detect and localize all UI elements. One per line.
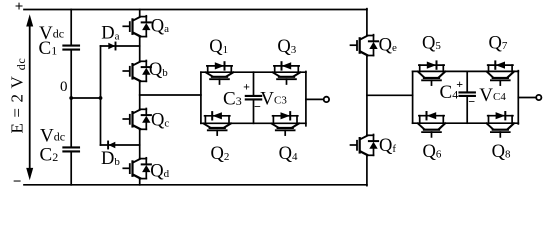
label Qa [151, 16, 169, 36]
label Vdc (upper) [39, 23, 64, 44]
svg-text:Qb: Qb [149, 60, 168, 80]
svg-text:Qf: Qf [379, 136, 396, 156]
wire: Qf to bottom rail [366, 155, 368, 185]
label Qf [379, 136, 396, 156]
svg-text:Vdc: Vdc [40, 126, 65, 147]
label E=2Vdc [8, 58, 28, 134]
svg-text:−: − [13, 174, 22, 190]
label Qd [150, 161, 169, 181]
terminal: cell1 output port [324, 97, 329, 102]
wire: node 0 to C2 [70, 98, 72, 147]
label C3 [223, 89, 242, 110]
svg-text:Q4: Q4 [279, 144, 298, 164]
svg-text:Q2: Q2 [211, 144, 230, 164]
label Q5 [422, 33, 441, 53]
label C2 [40, 145, 59, 166]
transistor Q4 [272, 112, 299, 135]
transistor Qb [123, 61, 151, 82]
diode Db [101, 142, 140, 149]
svg-text:Q6: Q6 [423, 142, 442, 162]
svg-text:VC3: VC3 [260, 89, 287, 110]
svg-text:Qc: Qc [151, 111, 169, 131]
svg-text:+: + [243, 80, 250, 94]
label + (source positive) [15, 0, 24, 15]
svg-text:Qe: Qe [379, 35, 397, 55]
label - (C3) [254, 100, 261, 114]
svg-text:Q7: Q7 [489, 33, 508, 53]
label Q8 [492, 142, 511, 162]
wire: cell1 top bus [201, 71, 306, 73]
label VC3 [260, 89, 287, 110]
wire: C2 to bottom rail [70, 152, 72, 185]
wire: top bus to C4 [466, 71, 468, 91]
svg-text:Db: Db [101, 149, 120, 169]
label + (C3) [243, 80, 250, 94]
capacitor C4 [460, 92, 475, 96]
transistor Qf [351, 135, 379, 156]
transistor Q8 [487, 112, 514, 137]
wire: cell2 bottom bus [413, 122, 519, 124]
wire: Qb to Qc (phase node) [139, 81, 141, 109]
wire: cell2 top bus [413, 70, 519, 72]
wire: phase node to H-bridge 1 [140, 94, 201, 96]
svg-text:Qa: Qa [151, 16, 169, 36]
transistor Q2 [204, 112, 231, 135]
transistor Qa [123, 16, 151, 37]
capacitor C1 [63, 46, 79, 50]
svg-text:0: 0 [60, 79, 68, 95]
transistor Q1 [206, 62, 233, 84]
source E=2Vdc dimension arrow [26, 14, 33, 180]
svg-text:Q5: Q5 [422, 33, 441, 53]
transistor Q5 [418, 61, 445, 85]
wire: top rail to Qa [139, 10, 141, 17]
label Qc [151, 111, 169, 131]
wire: cell2 left leg [412, 71, 414, 123]
label Qb [149, 60, 168, 80]
label - (source negative) [13, 174, 22, 190]
capacitor C3 [246, 96, 261, 100]
capacitor C2 [63, 147, 79, 151]
junction dot at C1-C2 node [69, 96, 73, 100]
svg-text:C2: C2 [40, 145, 59, 166]
wire: cell1 left leg [200, 72, 202, 123]
transistor Q7 [487, 61, 514, 85]
svg-text:Q8: Q8 [492, 142, 511, 162]
svg-text:E=2Vdc: E=2Vdc [8, 58, 28, 134]
transistor Q6 [418, 112, 445, 137]
label C1 [39, 38, 58, 59]
label Da [101, 24, 119, 44]
transistor Qe [351, 35, 379, 56]
svg-text:Qd: Qd [150, 161, 169, 181]
svg-text:+: + [15, 0, 24, 15]
label Q7 [489, 33, 508, 53]
label C4 [440, 82, 459, 103]
wire: negative DC bottom rail [24, 184, 367, 186]
wire: clamp vertical [100, 46, 102, 145]
label + (C4) [456, 77, 463, 91]
svg-text:−: − [468, 95, 475, 109]
svg-text:Da: Da [101, 24, 119, 44]
transistor Qc [123, 109, 151, 130]
wire: Qd to bottom rail [139, 179, 141, 185]
svg-text:Q1: Q1 [209, 37, 228, 57]
svg-text:VC4: VC4 [479, 85, 506, 106]
wire: positive DC top rail [24, 9, 367, 11]
wire: cell1 bottom bus [201, 122, 306, 124]
junction dot at clamp node [99, 96, 103, 100]
label - (C4) [468, 95, 475, 109]
wire: C3 to bottom bus [253, 100, 255, 123]
label Qe [379, 35, 397, 55]
label Q4 [279, 144, 298, 164]
wire: top rail to C1 [70, 10, 72, 46]
label Vdc (lower) [40, 126, 65, 147]
wire: Qc to Qd [139, 129, 141, 158]
label Q3 [277, 37, 296, 57]
svg-text:C3: C3 [223, 89, 242, 110]
label Q2 [211, 144, 230, 164]
wire: top rail corner to Qe [366, 9, 368, 36]
wire: cell2 right leg [517, 71, 519, 124]
svg-text:+: + [456, 77, 463, 91]
wire: cell2 output [518, 97, 536, 99]
transistor Qd [123, 158, 151, 179]
wire: Qa to Qb [139, 37, 141, 62]
svg-text:Q3: Q3 [277, 37, 296, 57]
wire: Qe to Qf (mid node) [366, 56, 368, 136]
transistor Q3 [273, 62, 300, 84]
label Db [101, 149, 120, 169]
wire: cell1 output [306, 98, 324, 100]
terminal: cell2 output port [536, 95, 541, 100]
wire: top bus to C3 [253, 72, 255, 95]
wire: C1 to node 0 [70, 50, 72, 98]
wire: Qe/Qf mid node to H-bridge 2 [367, 94, 413, 96]
diode Da [101, 43, 140, 50]
label VC4 [479, 85, 506, 106]
label 0 [60, 79, 68, 95]
label Q1 [209, 37, 228, 57]
wire: cell1 right leg [305, 72, 307, 126]
wire: C4 to bottom bus [466, 97, 468, 124]
svg-text:C1: C1 [39, 38, 58, 59]
label Q6 [423, 142, 442, 162]
node 0 wire [71, 97, 100, 99]
